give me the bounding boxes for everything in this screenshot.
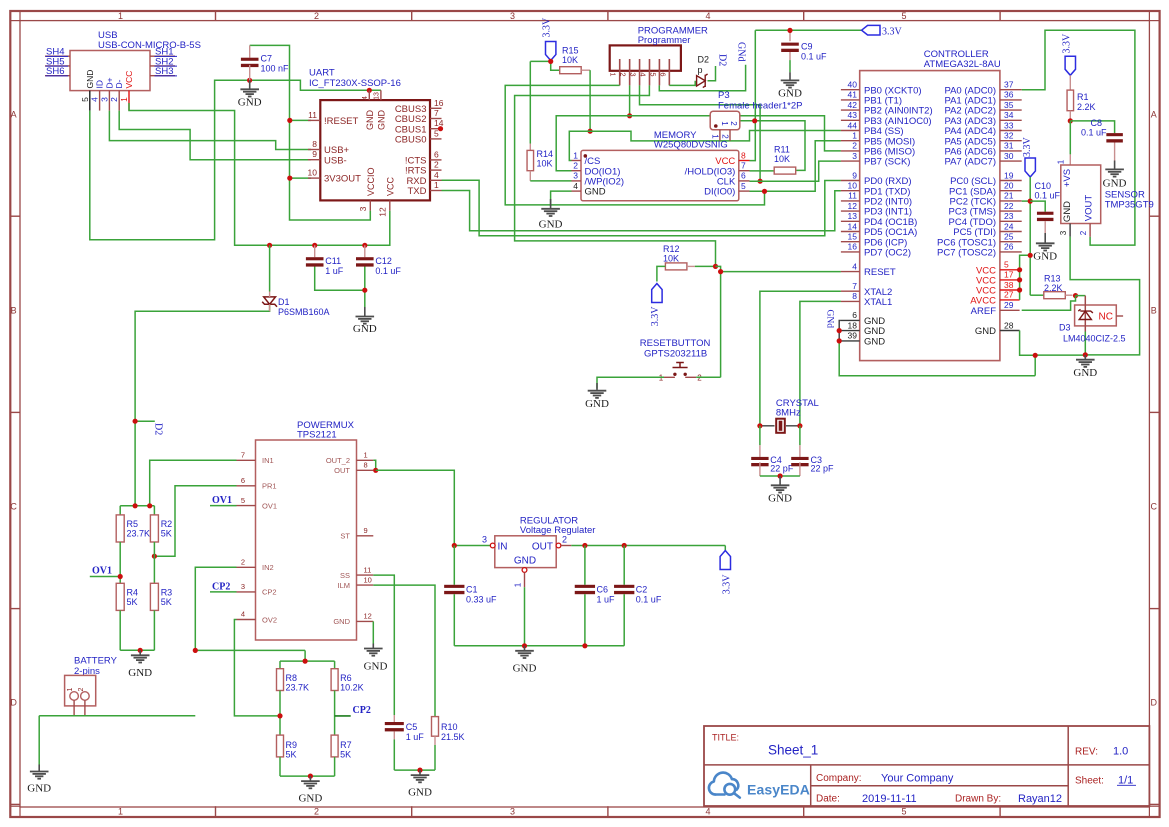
svg-text:GPTS203211B: GPTS203211B [644, 349, 707, 360]
wire R14 to memory WP pin [530, 180, 571, 182]
diode D1 P6SMB160A [262, 292, 329, 318]
svg-text:10K: 10K [562, 55, 578, 65]
svg-text:R11: R11 [774, 145, 790, 155]
svg-text:IN1: IN1 [262, 456, 274, 465]
svg-text:31: 31 [1004, 141, 1014, 151]
svg-text:5: 5 [241, 496, 245, 505]
wire R15 to SS net [589, 70, 591, 131]
svg-text:27: 27 [1004, 290, 1014, 300]
svg-text:6: 6 [658, 72, 667, 76]
svg-text:2: 2 [729, 121, 738, 126]
wire controller gnd bracket [839, 320, 1035, 375]
EasyEDA logo [709, 773, 810, 798]
wire SS net memory CS to controller PB4 via P3 [569, 131, 841, 161]
svg-text:OV1: OV1 [212, 495, 232, 506]
svg-text:30: 30 [1004, 151, 1014, 161]
junction V1 R11 branch [752, 118, 757, 123]
capacitor C11 1 uF [306, 245, 344, 275]
svg-text:13: 13 [373, 92, 380, 100]
svg-text:35: 35 [1004, 100, 1014, 110]
resistor R4 5K [116, 583, 138, 610]
component U6 REGULATOR Voltage Regulater [482, 516, 595, 588]
wire IN2 from battery [195, 567, 236, 650]
wire regulator OUT to 3.3V flag [571, 546, 725, 551]
capacitor C10 0.1 uF [1035, 181, 1061, 233]
svg-text:D+: D+ [104, 77, 114, 88]
svg-text:ILM: ILM [337, 581, 350, 590]
svg-text:100 nF: 100 nF [261, 64, 290, 74]
USB shield pins SH1 SH2 SH3 [150, 47, 177, 77]
svg-text:1.0: 1.0 [1113, 746, 1128, 758]
svg-text:7: 7 [241, 451, 245, 460]
svg-text:6: 6 [852, 310, 857, 320]
svg-text:GND: GND [298, 793, 322, 805]
wire programmer pin3 SCK tap [640, 85, 761, 181]
junction VCC pin5 [1017, 267, 1022, 272]
svg-text:22 pF: 22 pF [770, 464, 794, 474]
component P2 PROGRAMMER header [610, 26, 708, 71]
capacitor C3 22 pF [791, 426, 834, 476]
svg-text:IN2: IN2 [262, 563, 274, 572]
power flag 3.3V at regulator output [720, 551, 732, 595]
svg-text:TXD: TXD [408, 186, 427, 197]
capacitor C7 100 nF [241, 45, 289, 80]
wire battery row to gnd and IN2 [39, 650, 305, 764]
svg-text:4: 4 [90, 97, 100, 102]
svg-text:B: B [1151, 306, 1157, 316]
svg-text:TITLE:: TITLE: [712, 733, 739, 743]
svg-text:2: 2 [241, 558, 245, 567]
junction R15 on CS line [588, 129, 593, 134]
svg-text:20: 20 [1004, 181, 1014, 191]
wire R5 bottom to R4 with OV1 tap [90, 542, 120, 583]
svg-text:OV2: OV2 [262, 615, 277, 624]
svg-text:4: 4 [852, 261, 857, 271]
svg-text:2: 2 [314, 807, 319, 817]
svg-text:GND: GND [768, 493, 792, 505]
svg-text:8: 8 [364, 461, 368, 470]
svg-text:R8: R8 [286, 673, 298, 683]
svg-text:37: 37 [1004, 80, 1014, 90]
junction PC2 tap [1028, 199, 1033, 204]
wire net 3V3OUT C7 to UART pins 11 10 and VCCIO pin3 [250, 45, 371, 220]
wire MISO memory DO to controller PB6 [556, 116, 841, 171]
capacitor C8 0.1 uF [1081, 118, 1123, 161]
svg-text:GND: GND [365, 110, 375, 131]
svg-text:C8: C8 [1091, 118, 1103, 128]
svg-text:3: 3 [573, 171, 578, 181]
svg-text:12: 12 [364, 612, 372, 621]
svg-text:41: 41 [848, 90, 858, 100]
resistor R9 5K [277, 735, 298, 759]
svg-text:5: 5 [1004, 260, 1009, 270]
ground symbol below C8 [1103, 161, 1127, 190]
wire C10 tap [1030, 201, 1045, 212]
controller right pins PA0-PA7 [944, 80, 1021, 168]
svg-text:Programmer: Programmer [638, 35, 691, 46]
svg-text:10.2K: 10.2K [340, 683, 364, 693]
svg-text:3.3V: 3.3V [1062, 33, 1073, 54]
junction crystal gnd [778, 473, 783, 478]
svg-text:1: 1 [118, 11, 123, 21]
svg-text:1: 1 [1057, 159, 1066, 164]
svg-text:USB-: USB- [324, 155, 347, 166]
junction regulator gnd [522, 643, 527, 648]
svg-text:4: 4 [573, 181, 578, 191]
svg-text:0.1 uF: 0.1 uF [1035, 191, 1061, 201]
svg-text:1: 1 [434, 180, 439, 190]
svg-text:GND: GND [85, 70, 95, 89]
wire reset button to ground [597, 377, 721, 388]
svg-text:C9: C9 [801, 42, 813, 52]
wire 3.3V V1 to memory VCC with R11 branch [740, 30, 805, 170]
svg-text:R6: R6 [340, 673, 352, 683]
junction divider D2 net [133, 503, 138, 508]
svg-text:R7: R7 [340, 740, 352, 750]
title block [704, 726, 1149, 806]
svg-text:22: 22 [1004, 201, 1014, 211]
svg-text:p: p [698, 65, 703, 75]
svg-text:Female header1*2P: Female header1*2P [718, 100, 803, 111]
wire PR1 from R2 bottom [154, 486, 236, 556]
junction VCC C11 [312, 243, 317, 248]
junction crystal left [757, 423, 762, 428]
wire GND28 to gnd row [1020, 331, 1086, 376]
svg-text:GNd: GNd [825, 310, 835, 329]
wire XTAL2 to crystal [760, 291, 841, 426]
junction VCC pin17 [1017, 277, 1022, 282]
svg-text:GND: GND [585, 187, 606, 198]
svg-text:R10: R10 [441, 722, 458, 732]
svg-text:1: 1 [609, 72, 618, 76]
junction gnd bracket 39 [837, 338, 842, 343]
svg-text:GND: GND [975, 326, 996, 337]
svg-text:C1: C1 [466, 585, 478, 595]
svg-text:PD7 (OC2): PD7 (OC2) [864, 248, 911, 259]
wire R1 node to C8 [1070, 121, 1114, 133]
svg-text:1 uF: 1 uF [406, 732, 425, 742]
svg-text:R9: R9 [286, 740, 298, 750]
svg-text:IC_FT230X-SSOP-16: IC_FT230X-SSOP-16 [309, 78, 401, 89]
wire D2 cathode to net label D2 [708, 66, 716, 81]
svg-text:1: 1 [710, 134, 719, 139]
svg-text:RESET: RESET [864, 267, 896, 278]
svg-text:11: 11 [848, 191, 857, 201]
svg-text:CP2: CP2 [262, 588, 277, 597]
resistor R12 10K [663, 244, 716, 270]
svg-text:GND: GND [1062, 201, 1073, 222]
svg-text:Rayan12: Rayan12 [1018, 793, 1062, 805]
svg-text:3: 3 [241, 582, 245, 591]
wire net VCC from USB pin1 to C11 C12 and UART VCC pin12 [129, 103, 390, 245]
svg-text:4: 4 [638, 72, 647, 76]
resistor R10 21.5K [432, 717, 465, 771]
svg-text:R5: R5 [127, 519, 139, 529]
svg-text:5: 5 [648, 72, 657, 76]
power flag 3.3V arrow top [862, 25, 903, 37]
ground symbol below C5 R10 [408, 770, 432, 798]
junction VCC pin38 [1017, 287, 1022, 292]
svg-text:CP2: CP2 [212, 582, 230, 593]
wire ILM to R10 [373, 585, 435, 717]
junction divider IN1 [147, 503, 152, 508]
svg-text:ST: ST [340, 532, 350, 541]
svg-text:PR1: PR1 [262, 482, 277, 491]
powermux left pins [237, 451, 278, 625]
resistor R7 5K [331, 735, 352, 759]
svg-text:3V3OUT: 3V3OUT [324, 174, 361, 185]
svg-text:AVCC: AVCC [970, 296, 996, 307]
svg-text:7: 7 [852, 281, 857, 291]
svg-text:25: 25 [1004, 232, 1014, 242]
svg-text:LM4040CIZ-2.5: LM4040CIZ-2.5 [1063, 334, 1126, 344]
junction RESET pin row [718, 269, 723, 274]
chip U4 SENSOR TMP35GT9 [1057, 159, 1154, 223]
junction programmer pin2 on MISO line [627, 113, 632, 118]
svg-text:GND: GND [333, 617, 350, 626]
svg-text:OUT: OUT [334, 466, 350, 475]
svg-text:2: 2 [434, 160, 439, 170]
svg-text:21.5K: 21.5K [441, 732, 465, 742]
chip U2 CONTROLLER ATMEGA32L-8AU [860, 49, 1001, 361]
svg-text:3: 3 [629, 72, 638, 76]
junction divider gnd [138, 648, 143, 653]
wire 3.3V rail to VCC pins and R13 [1020, 177, 1044, 300]
USB bottom pins 5 GND 4 ID 3 D+ 2 D- 1 VCC [80, 70, 134, 111]
svg-text:4: 4 [705, 11, 710, 21]
svg-text:9: 9 [852, 170, 857, 180]
controller GND pins 6 18 39 [841, 310, 885, 347]
svg-text:5: 5 [901, 807, 906, 817]
svg-text:8MHz: 8MHz [776, 408, 801, 419]
capacitor C12 0.1 uF [356, 245, 401, 275]
svg-text:Sheet:: Sheet: [1075, 776, 1104, 787]
wire C11 C12 ground row [315, 265, 365, 307]
junction R8 R9 OV2 node [277, 713, 282, 718]
wire divider top row [120, 506, 154, 515]
powermux right pins [326, 451, 373, 627]
svg-text:XTAL1: XTAL1 [864, 297, 892, 308]
svg-text:2: 2 [852, 141, 857, 151]
svg-text:Voltage Regulater: Voltage Regulater [520, 525, 596, 536]
resistor R6 10.2K [331, 669, 364, 693]
junction 3.3V flag node [548, 59, 553, 64]
svg-text:NC: NC [1099, 312, 1113, 323]
svg-text:1: 1 [573, 150, 578, 160]
svg-text:0.33 uF: 0.33 uF [466, 594, 497, 604]
diode D3 LM4040CIZ-2.5 with NC box [1059, 296, 1126, 355]
programmer pins 1-6 [609, 59, 670, 85]
svg-text:GND: GND [778, 88, 802, 100]
svg-text:4: 4 [705, 807, 710, 817]
capacitor C9 0.1 uF [781, 42, 827, 73]
svg-text:B: B [11, 306, 17, 316]
svg-text:C2: C2 [636, 585, 648, 595]
svg-text:PC7 (TOSC2): PC7 (TOSC2) [937, 248, 996, 259]
resistor R11 10K pullup [750, 145, 796, 175]
svg-text:3.3V: 3.3V [542, 17, 553, 38]
memory right pins 8 VCC 7 HOLD 6 CLK 5 DI [685, 150, 750, 197]
svg-text:10: 10 [364, 575, 372, 584]
svg-text:14: 14 [848, 221, 858, 231]
junction C9 top [787, 28, 792, 33]
svg-text:11: 11 [308, 110, 317, 120]
svg-text:22 pF: 22 pF [811, 464, 835, 474]
svg-text:1: 1 [119, 97, 129, 102]
junction OUT_2 OUT [373, 468, 378, 473]
P3 pins 1 2 [710, 130, 730, 141]
wire R9 R7 bottom row [280, 757, 335, 776]
junction R2 bottom [152, 554, 157, 559]
svg-text:C: C [1151, 502, 1158, 512]
svg-text:5K: 5K [127, 597, 138, 607]
svg-text:GND: GND [128, 667, 152, 679]
wire CLK memory to controller PB7 [750, 161, 841, 181]
svg-text:D: D [1151, 698, 1158, 708]
component RESETBUTTON GPTS203211B [640, 338, 711, 383]
svg-text:23.7K: 23.7K [127, 529, 151, 539]
component X1 CRYSTAL 8MHz [762, 398, 819, 433]
wire OUT row to regulator IN [376, 470, 491, 545]
UART bottom pins VCCIO 3 and VCC 12 [358, 167, 396, 216]
svg-text:3: 3 [510, 11, 515, 21]
svg-text:AREF: AREF [971, 306, 997, 317]
svg-text:PB7 (SCK): PB7 (SCK) [864, 157, 910, 168]
wire RESET row to controller and button [716, 266, 841, 377]
svg-text:19: 19 [1004, 170, 1014, 180]
svg-text:5: 5 [741, 181, 746, 191]
wire programmer pin5 to GNd label [659, 65, 745, 91]
svg-text:33: 33 [1004, 120, 1014, 130]
svg-text:15: 15 [848, 232, 858, 242]
capacitor C4 22 pF [751, 426, 794, 476]
power flag 3.3V above R1 [1062, 33, 1076, 75]
wire UART RXD to controller PD0 [442, 180, 841, 236]
svg-text:4: 4 [434, 170, 439, 180]
component P3 female header 1x2P [710, 90, 802, 130]
svg-text:4: 4 [241, 610, 245, 619]
wire AREF to D3 node [1022, 296, 1086, 311]
svg-text:3.3V: 3.3V [650, 306, 661, 327]
svg-text:10: 10 [848, 181, 858, 191]
svg-text:Sheet_1: Sheet_1 [768, 743, 818, 758]
svg-text:23.7K: 23.7K [286, 683, 310, 693]
svg-text:VCC: VCC [124, 71, 134, 89]
svg-text:21: 21 [1004, 191, 1014, 201]
svg-text:PA7 (ADC7): PA7 (ADC7) [944, 157, 996, 168]
junction crystal right [797, 423, 802, 428]
svg-text:GND: GND [27, 783, 51, 795]
svg-text:OUT: OUT [532, 541, 553, 552]
svg-text:28: 28 [1004, 320, 1014, 330]
svg-text:GND: GND [408, 787, 432, 799]
svg-text:8: 8 [741, 150, 746, 160]
junction VCC D1 branch [267, 243, 272, 248]
svg-text:0.1 uF: 0.1 uF [375, 266, 401, 276]
svg-text:5K: 5K [161, 529, 172, 539]
svg-text:OV1: OV1 [92, 566, 112, 577]
chip U5 POWERMUX TPS2121 [256, 420, 357, 640]
sensor bottom pins 3 GND 2 VOUT [1059, 224, 1090, 237]
svg-text:8: 8 [312, 139, 317, 149]
svg-text:2.2K: 2.2K [1044, 283, 1063, 293]
resistor R1 2.2K [1067, 75, 1095, 121]
resistor R14 10K [527, 144, 553, 181]
junction C2 top [622, 543, 627, 548]
svg-text:34: 34 [1004, 110, 1014, 120]
wire OUT_2 jog to OUT row [373, 460, 375, 470]
power flag 3.3V above R15 [542, 17, 556, 61]
junction C6 bottom [582, 643, 587, 648]
wire 3.3V rail top with C9 [755, 30, 861, 41]
junction UART pin10 3V3OUT [287, 176, 292, 181]
svg-text:2: 2 [314, 11, 319, 21]
svg-text:36: 36 [1004, 90, 1014, 100]
junction C11 C12 gnd [362, 288, 367, 293]
svg-text:VOUT: VOUT [1084, 195, 1095, 222]
junction C5 R10 gnd [417, 768, 422, 773]
junction memory DI pin [762, 189, 767, 194]
ground symbol below battery [27, 765, 51, 795]
controller pins RESET XTAL2 XTAL1 [841, 261, 896, 308]
ground symbol below C12 [353, 307, 377, 335]
UART left pins 11 8 9 10 [308, 110, 362, 185]
ground symbol below memory [539, 191, 572, 230]
junction UART CBUS1 pin14 [438, 126, 443, 131]
wire divider bottom row to gnd [120, 610, 154, 650]
svg-text:9: 9 [364, 526, 368, 535]
svg-text:2.2K: 2.2K [1077, 102, 1096, 112]
capacitor C6 1 uF [575, 546, 615, 646]
junction net-label D2 stub [133, 419, 138, 424]
svg-text:2019-11-11: 2019-11-11 [862, 793, 917, 805]
svg-text:D2: D2 [153, 423, 164, 435]
svg-text:7: 7 [434, 108, 439, 118]
wire regulator gnd rail [454, 587, 624, 646]
wire net GND from USB pin5 to C7 ground and UART top GND pins [90, 80, 381, 240]
junction lower divider gnd [308, 774, 313, 779]
svg-text:R4: R4 [127, 588, 139, 598]
junction UART GND top pin [367, 88, 372, 93]
svg-text:16: 16 [848, 242, 858, 252]
ground symbol below C9 [778, 72, 802, 99]
svg-text:OV1: OV1 [262, 501, 277, 510]
ruler column numbers [118, 11, 907, 817]
svg-text:5K: 5K [286, 750, 297, 760]
svg-text:4: 4 [362, 96, 369, 100]
wire R8 to R9 [279, 691, 281, 736]
junction battery IN2 node [193, 648, 198, 653]
wire IN1 from resistor divider [150, 460, 237, 506]
svg-text:GND: GND [514, 556, 536, 567]
svg-text:12: 12 [848, 201, 858, 211]
svg-text:GND: GND [376, 110, 386, 131]
svg-text:10: 10 [308, 168, 318, 178]
svg-text:6: 6 [434, 149, 439, 159]
wire SS to C5 [373, 575, 394, 715]
wire C5 R10 gnd row [394, 769, 435, 771]
svg-text:R2: R2 [161, 519, 173, 529]
svg-text:18: 18 [848, 320, 858, 330]
svg-text:2: 2 [1079, 230, 1088, 235]
svg-text:D1: D1 [278, 297, 290, 307]
svg-text:2: 2 [78, 687, 85, 691]
svg-text:GNd: GNd [736, 42, 747, 61]
svg-text:1 uF: 1 uF [325, 266, 344, 276]
svg-text:8: 8 [852, 291, 857, 301]
svg-text:GND: GND [513, 663, 537, 675]
svg-text:6: 6 [741, 171, 746, 181]
